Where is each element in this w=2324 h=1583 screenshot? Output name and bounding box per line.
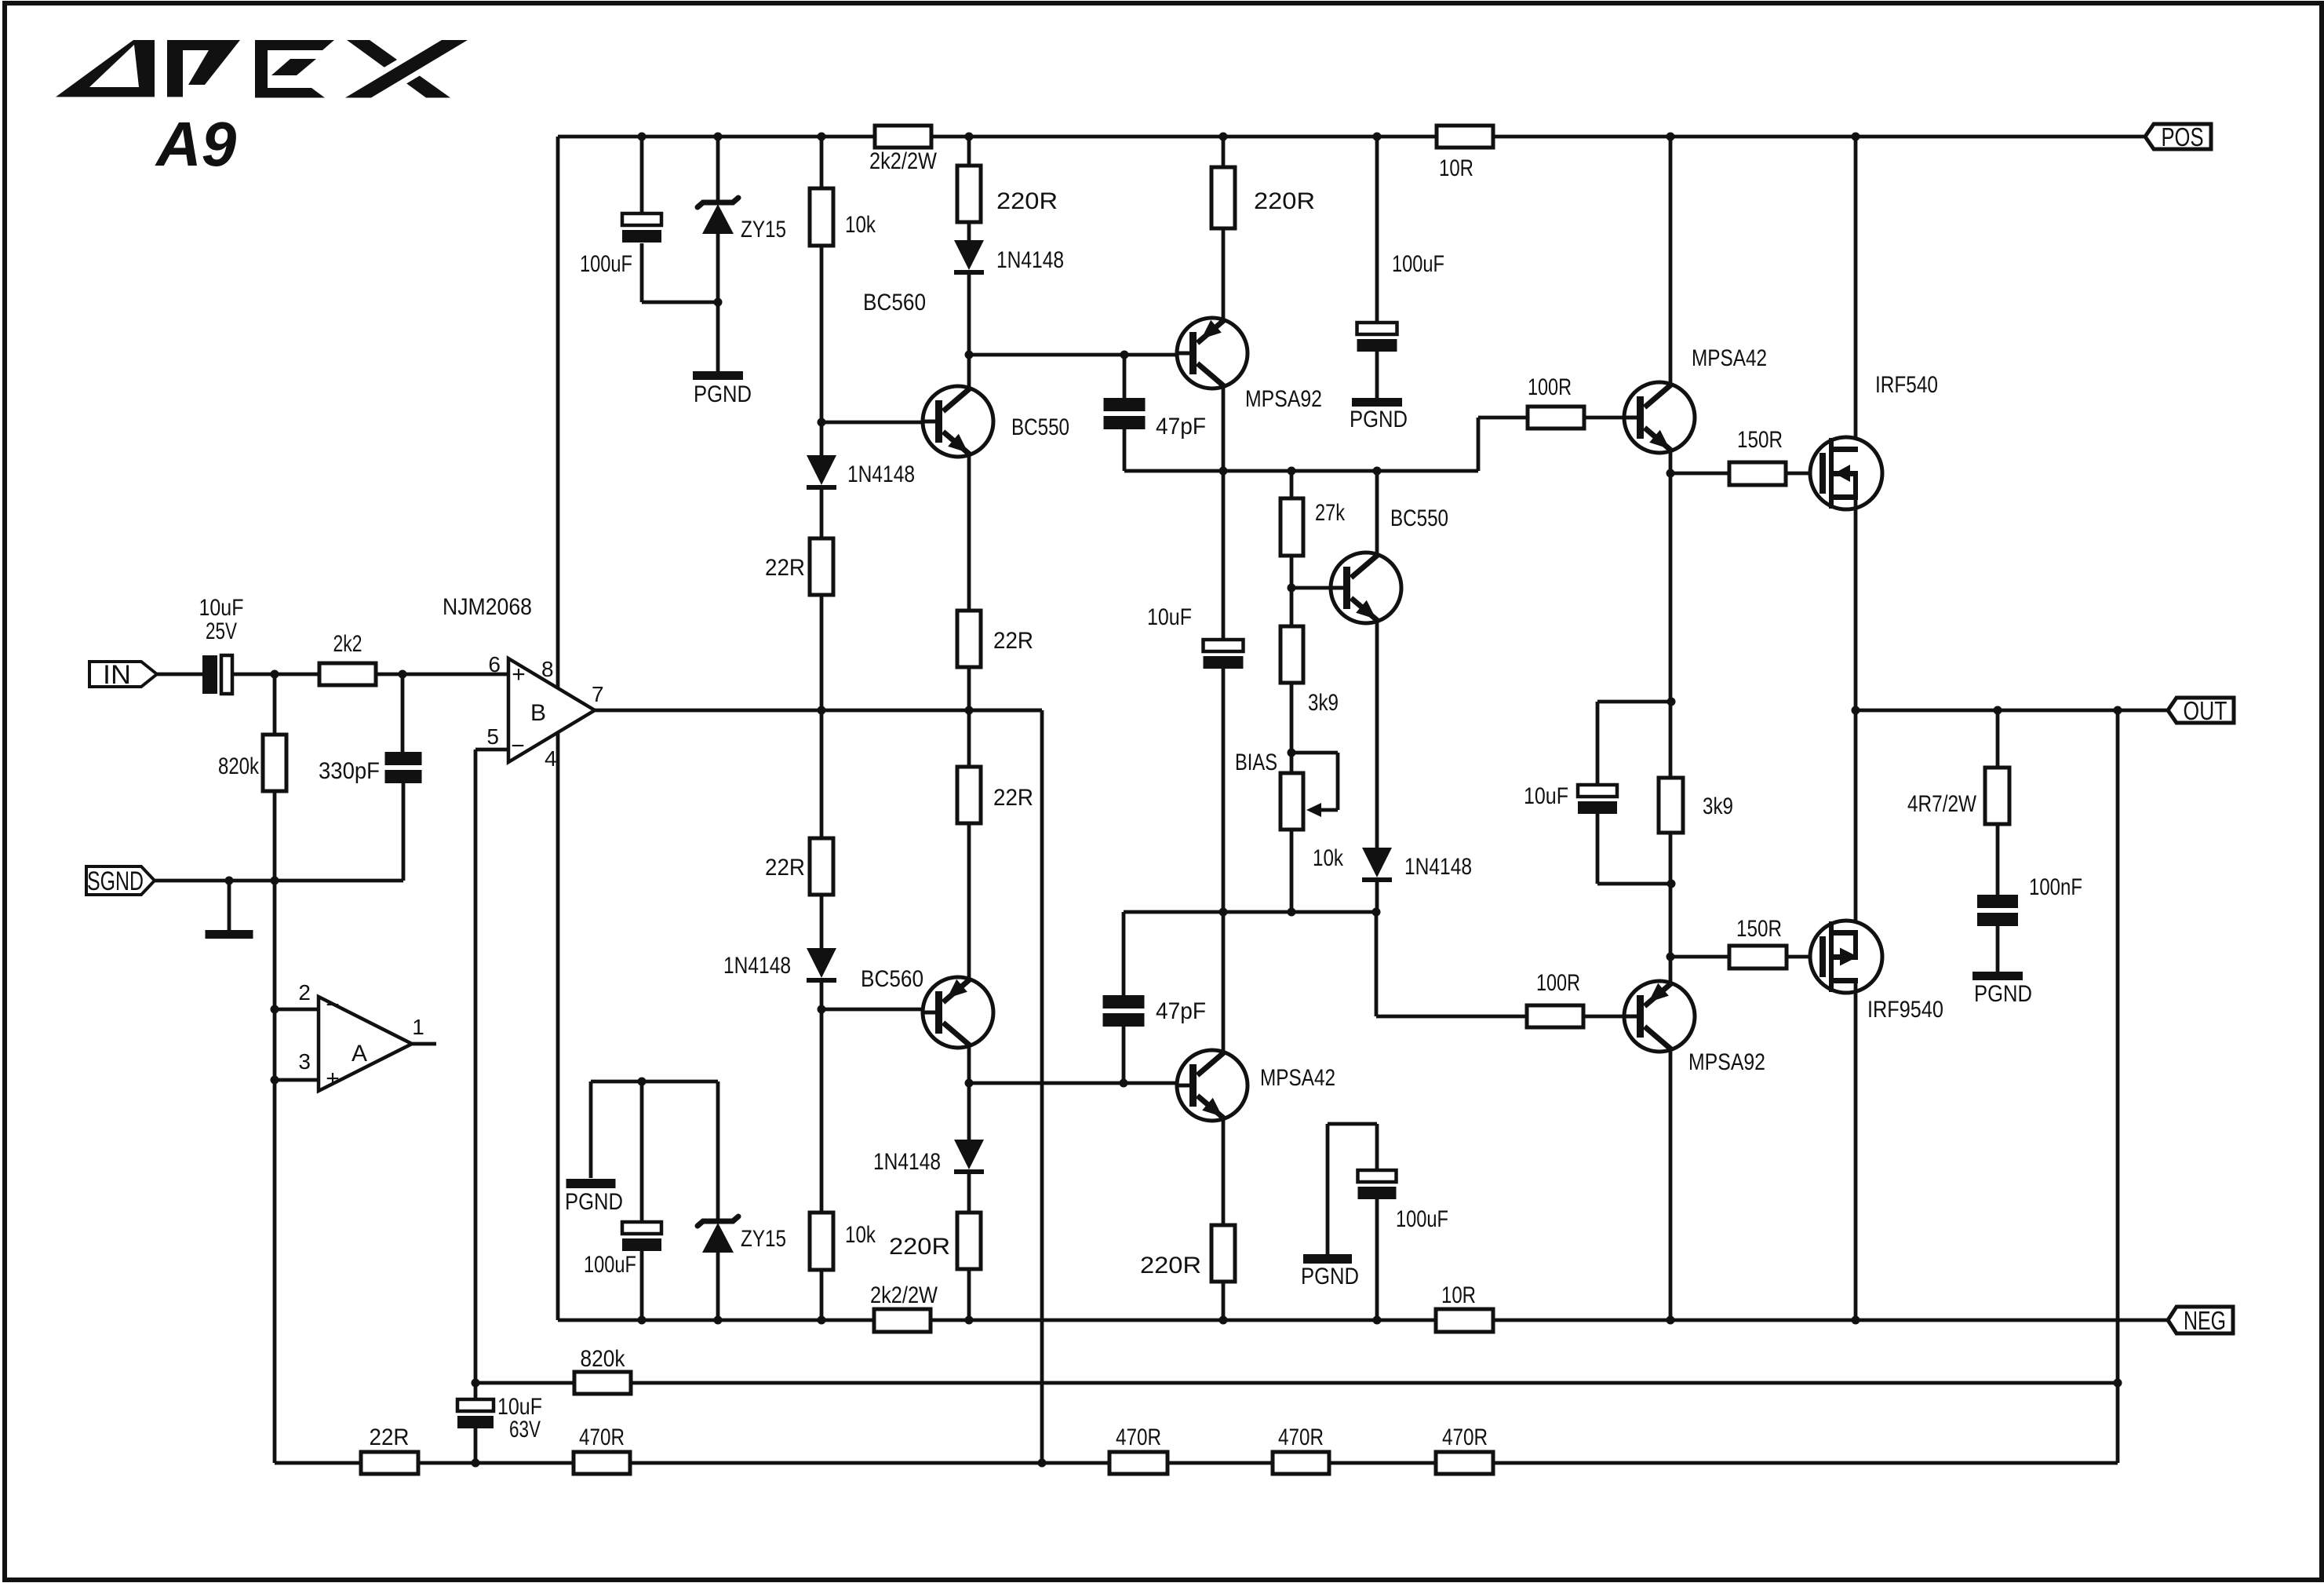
svg-text:63V: 63V xyxy=(509,1417,541,1443)
svg-text:220R: 220R xyxy=(889,1234,950,1260)
svg-text:10uF: 10uF xyxy=(1147,604,1192,630)
svg-text:7: 7 xyxy=(592,682,604,706)
svg-text:47pF: 47pF xyxy=(1156,414,1206,440)
svg-text:1N4148: 1N4148 xyxy=(873,1149,941,1175)
svg-text:IN: IN xyxy=(103,660,131,690)
svg-text:25V: 25V xyxy=(206,618,237,644)
svg-text:150R: 150R xyxy=(1736,916,1782,942)
svg-text:820k: 820k xyxy=(218,753,260,779)
svg-text:100uF: 100uF xyxy=(1392,251,1444,277)
svg-text:ZY15: ZY15 xyxy=(741,1226,786,1252)
svg-text:A: A xyxy=(352,1041,367,1067)
svg-text:22R: 22R xyxy=(765,855,805,881)
svg-text:100nF: 100nF xyxy=(2029,874,2082,900)
svg-text:2k2/2W: 2k2/2W xyxy=(869,148,938,174)
svg-text:27k: 27k xyxy=(1315,500,1346,526)
svg-text:10k: 10k xyxy=(845,1222,876,1248)
svg-text:22R: 22R xyxy=(765,555,805,581)
svg-text:MPSA92: MPSA92 xyxy=(1245,386,1322,412)
svg-text:1N4148: 1N4148 xyxy=(1404,854,1472,880)
svg-text:BC550: BC550 xyxy=(1390,505,1448,531)
svg-text:100uF: 100uF xyxy=(1396,1206,1448,1232)
svg-text:IRF540: IRF540 xyxy=(1875,372,1938,398)
svg-text:BC560: BC560 xyxy=(861,966,923,992)
svg-text:47pF: 47pF xyxy=(1156,998,1206,1024)
svg-text:1N4148: 1N4148 xyxy=(723,953,791,979)
svg-text:PGND: PGND xyxy=(565,1189,623,1215)
svg-text:470R: 470R xyxy=(579,1424,625,1450)
svg-text:1N4148: 1N4148 xyxy=(847,461,915,487)
svg-text:10k: 10k xyxy=(845,212,876,238)
svg-text:10R: 10R xyxy=(1441,1282,1476,1308)
svg-text:B: B xyxy=(530,700,546,726)
svg-text:100uF: 100uF xyxy=(580,251,632,277)
svg-text:−: − xyxy=(326,992,340,1018)
svg-text:+: + xyxy=(512,662,526,688)
svg-text:BC550: BC550 xyxy=(1011,414,1069,440)
svg-text:MPSA42: MPSA42 xyxy=(1260,1065,1335,1091)
svg-text:BIAS: BIAS xyxy=(1235,750,1277,775)
svg-text:470R: 470R xyxy=(1116,1424,1161,1450)
svg-text:PGND: PGND xyxy=(1301,1264,1359,1289)
svg-text:IRF9540: IRF9540 xyxy=(1867,997,1943,1023)
svg-text:220R: 220R xyxy=(996,188,1058,214)
svg-text:100uF: 100uF xyxy=(584,1252,636,1278)
svg-text:100R: 100R xyxy=(1536,970,1580,996)
svg-text:OUT: OUT xyxy=(2184,696,2227,725)
svg-text:+: + xyxy=(326,1066,340,1092)
svg-text:−: − xyxy=(511,733,525,759)
svg-text:3k9: 3k9 xyxy=(1308,690,1339,716)
svg-text:470R: 470R xyxy=(1278,1424,1324,1450)
svg-text:220R: 220R xyxy=(1140,1253,1201,1278)
svg-text:10uF: 10uF xyxy=(199,595,244,621)
svg-text:2k2: 2k2 xyxy=(333,631,362,657)
svg-text:2k2/2W: 2k2/2W xyxy=(870,1282,938,1308)
svg-text:2: 2 xyxy=(298,980,311,1005)
svg-text:PGND: PGND xyxy=(1974,981,2032,1007)
svg-text:1N4148: 1N4148 xyxy=(996,247,1064,273)
svg-text:SGND: SGND xyxy=(87,866,144,896)
svg-text:BC560: BC560 xyxy=(863,290,926,316)
svg-text:330pF: 330pF xyxy=(319,758,380,784)
svg-text:MPSA92: MPSA92 xyxy=(1688,1049,1765,1075)
svg-text:8: 8 xyxy=(541,657,554,681)
svg-text:A9: A9 xyxy=(155,109,237,179)
svg-text:NEG: NEG xyxy=(2184,1306,2226,1335)
svg-text:PGND: PGND xyxy=(1350,407,1408,432)
svg-text:10R: 10R xyxy=(1439,155,1473,181)
svg-text:6: 6 xyxy=(488,652,501,677)
svg-text:22R: 22R xyxy=(370,1424,410,1450)
svg-text:4R7/2W: 4R7/2W xyxy=(1907,791,1977,817)
svg-text:820k: 820k xyxy=(581,1346,626,1372)
svg-text:22R: 22R xyxy=(993,785,1033,811)
svg-text:ZY15: ZY15 xyxy=(741,217,786,243)
svg-text:MPSA42: MPSA42 xyxy=(1692,345,1767,371)
svg-text:5: 5 xyxy=(486,724,499,749)
svg-text:470R: 470R xyxy=(1442,1424,1488,1450)
svg-text:3: 3 xyxy=(298,1049,311,1074)
svg-text:1: 1 xyxy=(412,1015,424,1039)
svg-text:4: 4 xyxy=(545,746,557,771)
svg-text:PGND: PGND xyxy=(694,381,752,407)
svg-text:100R: 100R xyxy=(1528,374,1572,400)
svg-text:10uF: 10uF xyxy=(1524,783,1568,809)
svg-text:22R: 22R xyxy=(993,628,1033,654)
svg-text:POS: POS xyxy=(2162,122,2204,151)
svg-text:220R: 220R xyxy=(1254,188,1315,214)
svg-text:NJM2068: NJM2068 xyxy=(443,594,532,620)
svg-text:150R: 150R xyxy=(1737,427,1783,453)
svg-text:3k9: 3k9 xyxy=(1703,793,1733,819)
svg-text:10k: 10k xyxy=(1313,845,1344,871)
